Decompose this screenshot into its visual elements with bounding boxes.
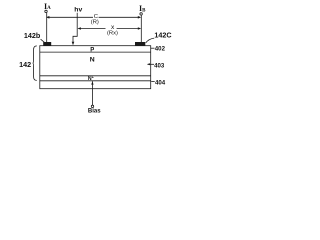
terminal circle IA [45, 10, 47, 12]
arrowhead 403 [147, 63, 150, 65]
leader 404 [151, 81, 155, 83]
leader 142C [146, 38, 154, 43]
contact 142C (right electrode) [135, 42, 145, 46]
svg-text:hv: hv [74, 7, 82, 14]
svg-text:(R): (R) [91, 19, 99, 25]
leader 142b [41, 39, 45, 42]
layer line N+/substrate [40, 80, 151, 82]
leader 403 [148, 63, 155, 65]
terminal circle IB [140, 13, 142, 15]
dimension line C right segment [99, 16, 140, 18]
dimension line x left segment [78, 28, 105, 30]
terminal circle Bias [91, 105, 93, 107]
svg-text:Bias: Bias [88, 109, 101, 115]
svg-text:N: N [90, 57, 95, 64]
svg-text:403: 403 [154, 63, 165, 70]
layer line N/N+ [40, 75, 151, 77]
box outline (device body) [40, 46, 151, 89]
photon arrow hv polyline [73, 13, 77, 43]
layer line P/N [40, 51, 151, 53]
arrowhead C left [46, 16, 49, 19]
dimension line C left segment [47, 16, 93, 18]
svg-text:P: P [90, 47, 94, 53]
dimension line x right segment [117, 28, 140, 30]
svg-text:142C: 142C [154, 31, 171, 40]
arrowhead C right [138, 16, 141, 19]
wire IB vertical [140, 15, 142, 42]
svg-text:402: 402 [155, 46, 166, 53]
arrowhead x right [138, 27, 141, 30]
arrowhead hv down [72, 42, 75, 45]
wire IA vertical [46, 13, 48, 43]
svg-text:142b: 142b [24, 31, 41, 40]
svg-text:404: 404 [155, 80, 166, 87]
arrowhead Bias up [91, 81, 93, 84]
leader 402 [151, 47, 155, 49]
wire Bias vertical [91, 81, 93, 105]
svg-text:142: 142 [19, 60, 31, 69]
svg-text:(Rx): (Rx) [107, 31, 118, 37]
contact 142b (left electrode) [43, 42, 51, 46]
arrowhead x left [78, 27, 81, 30]
brace 142 [33, 46, 37, 81]
